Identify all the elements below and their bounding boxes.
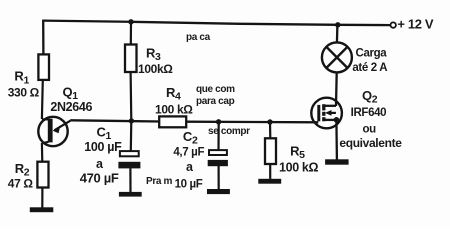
wire: mid horizontal (emitter to R4) (70, 120, 160, 121)
svg-text:R3: R3 (146, 46, 161, 64)
wire: Q2 source to ground (335, 120, 338, 160)
wire: rail to R1 (42, 20, 45, 56)
svg-text:100 kΩ: 100 kΩ (279, 160, 319, 174)
svg-text:Carga: Carga (356, 47, 388, 59)
svg-text:a: a (186, 160, 194, 174)
junction dot: rail / R3 (128, 19, 133, 24)
ground (C2) (207, 189, 230, 194)
wire: R1 to Q1 (41, 80, 44, 119)
junction dot: rail / lamp (335, 22, 340, 27)
wire: R3 to mid node (130, 72, 133, 121)
wire: +12V top rail (43, 21, 391, 26)
svg-text:equivalente: equivalente (339, 136, 402, 150)
svg-text:2N2646: 2N2646 (50, 100, 92, 114)
wire: C2 to ground (218, 166, 220, 190)
resistor R3 (125, 45, 137, 73)
svg-text:a: a (96, 157, 104, 171)
svg-text:47 Ω: 47 Ω (8, 176, 34, 190)
svg-text:até 2 A: até 2 A (352, 62, 387, 74)
capacitor C2 (208, 150, 228, 166)
wire: Q1 to R2 (41, 143, 44, 163)
resistor R4 (159, 116, 186, 127)
wire: lamp to Q2 drain (335, 72, 338, 106)
svg-text:100kΩ: 100kΩ (138, 62, 173, 76)
wire: R4 to gate (186, 121, 318, 124)
svg-text:R4: R4 (166, 85, 181, 103)
svg-text:100 µF: 100 µF (84, 140, 122, 154)
svg-text:100 kΩ: 100 kΩ (155, 103, 193, 117)
wire: rail to lamp (336, 25, 339, 44)
ground (C1) (119, 192, 142, 197)
svg-text:4,7 µF: 4,7 µF (173, 147, 204, 159)
junction dot: mid / C2 (216, 119, 221, 124)
svg-text:Q2: Q2 (362, 88, 378, 106)
resistor R1 (38, 54, 49, 80)
svg-text:pa ca: pa ca (186, 32, 211, 43)
svg-text:se compr: se compr (208, 126, 250, 137)
terminal +12V (391, 22, 396, 27)
svg-text:C2: C2 (183, 129, 198, 147)
resistor R5 (265, 138, 276, 164)
transistor Q1 2N2646 (38, 117, 70, 146)
svg-text:ou: ou (363, 123, 377, 135)
svg-text:10 µF: 10 µF (175, 178, 203, 190)
svg-text:que com: que com (196, 84, 235, 95)
junction dot: mid / R5 (267, 119, 272, 124)
wire: node to C1 (130, 121, 133, 151)
wire: node to R5 (269, 122, 271, 139)
svg-text:470 µF: 470 µF (80, 170, 119, 185)
svg-text:IRF640: IRF640 (351, 107, 387, 119)
wire: C1 to ground (129, 168, 131, 192)
svg-text:para cap: para cap (196, 96, 235, 107)
capacitor C1 (118, 151, 140, 168)
ground (R5) (258, 179, 281, 184)
background ghost noise (146, 32, 250, 187)
wire: R5 to ground (269, 164, 271, 179)
resistor R2 (37, 162, 48, 188)
svg-text:330 Ω: 330 Ω (8, 85, 40, 99)
junction dot: mid / C1,R3 (129, 118, 134, 123)
svg-text:R1: R1 (14, 69, 29, 87)
ground (R2) (30, 207, 54, 212)
svg-text:+ 12 V: + 12 V (397, 17, 434, 32)
lamp: Carga ate 2 A (322, 42, 352, 72)
svg-text:R5: R5 (290, 144, 305, 162)
svg-text:Pra m: Pra m (146, 176, 173, 187)
transistor Q2 IRF640 (311, 98, 342, 129)
wire: R2 to ground (41, 187, 43, 207)
wire: rail to R3 (130, 22, 132, 46)
wire: node to C2 (217, 122, 219, 150)
ground (Q2) (325, 159, 349, 164)
